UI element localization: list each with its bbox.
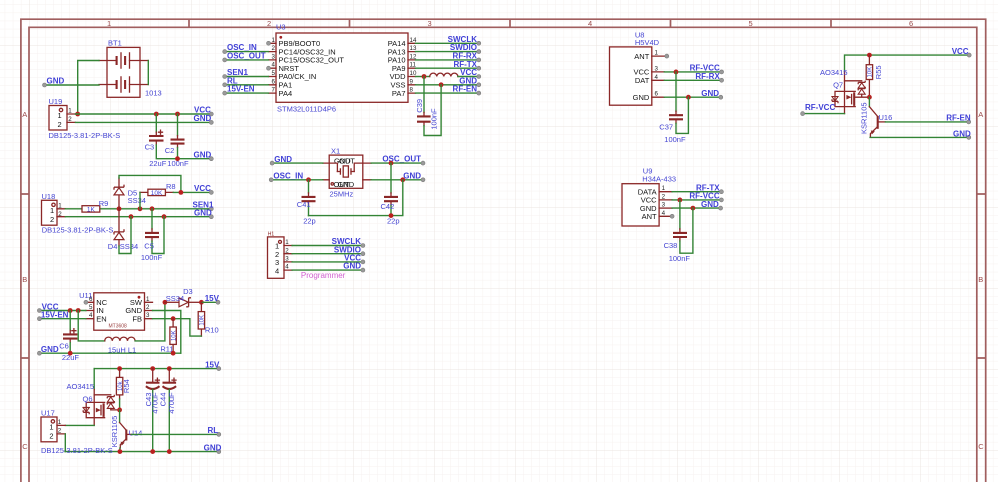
svg-text:GND: GND	[343, 262, 361, 271]
svg-text:GND: GND	[701, 200, 719, 209]
svg-text:C37: C37	[659, 123, 673, 132]
capacitor C44 470uF	[159, 369, 177, 452]
svg-text:RF-EN: RF-EN	[946, 114, 971, 123]
net label GND	[194, 114, 214, 124]
svg-text:100nF: 100nF	[141, 253, 163, 262]
wire RF-VCC from U8.3	[664, 71, 721, 73]
node VSS junction	[439, 82, 444, 87]
capacitor C2 (100nF)	[165, 114, 189, 168]
svg-text:VCC: VCC	[194, 184, 211, 193]
resistor R9 1K	[82, 199, 108, 214]
svg-text:8: 8	[410, 87, 414, 94]
svg-text:22uF: 22uF	[149, 159, 167, 168]
svg-text:B: B	[978, 275, 983, 284]
svg-text:2: 2	[146, 304, 150, 311]
wire RF-VCC (Q7 drain)	[803, 113, 845, 115]
svg-text:OUT: OUT	[339, 157, 355, 166]
wire SEN1 to U3.5	[225, 76, 269, 78]
wire RF-EN from U3.8	[416, 92, 479, 94]
capacitor C41 22p	[297, 180, 316, 226]
transistor U16 KSR1105	[859, 97, 892, 137]
node SEN1/C5 junction	[150, 206, 155, 211]
wire GND row (U16)	[870, 136, 969, 138]
capacitor C5 100nF	[141, 209, 164, 262]
svg-text:3: 3	[146, 312, 150, 319]
wire VCC (Q7 top)	[845, 55, 970, 71]
capacitor C43 470uF	[144, 369, 160, 452]
net label RL	[208, 426, 221, 436]
net label RF-TX	[453, 60, 480, 70]
wire VCC to U11.5	[39, 310, 86, 312]
net label RF-VCC (Q7)	[801, 103, 836, 116]
net label VCC (U11)	[37, 302, 58, 312]
svg-text:Q6: Q6	[83, 395, 93, 404]
resistor R8 10K	[140, 182, 176, 197]
wire C41/C42 bottom rail to GND	[309, 180, 403, 216]
net label SWCLK (H1)	[332, 237, 365, 247]
svg-text:2: 2	[58, 120, 62, 129]
net label SEN1	[223, 68, 249, 78]
wire VCC from inductor	[458, 76, 479, 78]
pin U11.6 open end	[84, 300, 88, 304]
svg-text:OSC_OUT: OSC_OUT	[382, 155, 421, 164]
wire RL to U3.6	[225, 84, 269, 86]
node OSC_IN / C41 junction	[306, 177, 311, 182]
svg-text:B: B	[22, 275, 27, 284]
svg-text:25MHz: 25MHz	[330, 190, 354, 199]
node U8 VCC junction	[674, 70, 679, 75]
wire SWCLK from H1.1	[292, 245, 363, 247]
net label GND (X1 right)	[403, 171, 425, 181]
svg-text:4: 4	[275, 266, 279, 275]
wire OSC_OUT to U3.3	[225, 59, 269, 61]
node U9 GND junction	[691, 206, 696, 211]
inductor L1 15uH	[105, 337, 137, 354]
svg-text:22p: 22p	[303, 217, 316, 226]
diode D4 SS34	[108, 209, 138, 251]
wire SEN1 row	[65, 208, 211, 210]
net label RF-TX	[696, 184, 723, 194]
net label OSC_OUT (X1)	[382, 155, 425, 165]
svg-text:100nF: 100nF	[430, 108, 439, 130]
wire 15V-EN to U11.4	[39, 318, 86, 320]
node SEN1/R8 junction	[138, 206, 143, 211]
svg-text:2: 2	[267, 19, 271, 28]
svg-text:D3: D3	[183, 287, 193, 296]
svg-text:1: 1	[655, 50, 659, 57]
node 15V/R54 junction	[117, 366, 122, 371]
svg-text:6: 6	[909, 19, 913, 28]
wire RF-VCC from U9.2	[672, 199, 721, 201]
svg-text:R10: R10	[205, 326, 219, 335]
svg-text:A: A	[978, 110, 983, 119]
node SEN1/D5 junction	[117, 206, 122, 211]
net label 15V (D3)	[205, 294, 220, 304]
svg-text:GND: GND	[194, 151, 212, 160]
node FB/R11 junction	[171, 316, 176, 321]
transistor U14 KSR1105	[110, 410, 142, 452]
svg-text:A: A	[22, 110, 27, 119]
resistor R11 10K	[160, 319, 177, 354]
net label GND (U9)	[701, 200, 723, 210]
node U9 VCC junction	[678, 198, 683, 203]
capacitor C6 22uF	[59, 311, 79, 363]
svg-text:C6: C6	[59, 341, 69, 350]
svg-text:GND: GND	[701, 89, 719, 98]
node C6 bottom junction	[68, 351, 73, 356]
net label RL	[223, 76, 238, 86]
net label OSC_IN (X1)	[269, 171, 303, 181]
capacitor C37 100nF	[659, 72, 688, 144]
svg-text:100nF: 100nF	[664, 135, 686, 144]
svg-text:R9: R9	[99, 199, 109, 208]
pin U9.4 ANT open end	[670, 214, 674, 218]
svg-text:15V-EN: 15V-EN	[41, 311, 69, 320]
svg-text:C5: C5	[144, 242, 154, 251]
wire 15V flag	[201, 301, 218, 303]
ground flag GND (battery)	[43, 77, 100, 88]
wire GND row (U18)	[65, 216, 211, 218]
net label GND (caps)	[194, 151, 214, 161]
svg-text:R8: R8	[166, 182, 176, 191]
svg-text:KSR1105: KSR1105	[110, 416, 119, 448]
svg-text:C3: C3	[145, 143, 155, 152]
wire L1 to SW node	[135, 302, 165, 341]
svg-text:4: 4	[272, 62, 276, 69]
svg-text:1: 1	[146, 296, 150, 303]
svg-text:GND: GND	[204, 444, 222, 453]
op-amp U3 STM32L011D4P6	[269, 23, 417, 114]
svg-text:10K: 10K	[868, 67, 874, 78]
diode D3 SS34	[165, 287, 202, 307]
svg-text:C: C	[978, 442, 984, 451]
svg-text:R55: R55	[874, 65, 883, 79]
transistor Q6 AO3415	[67, 382, 120, 425]
wire SWDIO from H1.2	[292, 253, 363, 255]
svg-text:C2: C2	[165, 146, 175, 155]
svg-text:ANT: ANT	[642, 212, 657, 221]
frame column ticks	[189, 19, 831, 27]
svg-text:5: 5	[89, 304, 93, 311]
svg-text:H34A-433: H34A-433	[642, 174, 676, 183]
node VDD junction	[422, 74, 427, 79]
diode D5 SS34	[114, 178, 146, 209]
svg-text:10K: 10K	[171, 330, 177, 341]
svg-text:VCC: VCC	[952, 47, 969, 56]
svg-text:C: C	[22, 442, 28, 451]
svg-text:GND: GND	[403, 171, 421, 180]
node L1 branch junction	[76, 308, 81, 313]
net label RF-EN	[946, 114, 971, 124]
svg-text:2: 2	[49, 431, 53, 440]
svg-text:3: 3	[662, 202, 666, 209]
svg-text:15V: 15V	[205, 360, 220, 369]
capacitor C38 100nF	[664, 200, 693, 263]
svg-text:GND: GND	[953, 129, 971, 138]
svg-text:6: 6	[89, 296, 93, 303]
node GND/C5 junction	[162, 214, 167, 219]
svg-text:GND: GND	[194, 209, 212, 218]
net label VCC	[460, 68, 481, 78]
wire BT1 plus to VCC rail	[78, 61, 99, 115]
svg-text:5: 5	[749, 19, 753, 28]
svg-text:6: 6	[272, 78, 276, 85]
wire SWCLK from U3.14	[416, 42, 479, 44]
wire GND line (bottom)	[65, 451, 219, 453]
connector H1 (programmer header)	[268, 231, 293, 278]
svg-text:C39: C39	[415, 99, 424, 113]
svg-text:SS34: SS34	[166, 294, 184, 303]
svg-text:4: 4	[655, 74, 659, 81]
node 15V junction	[199, 300, 204, 305]
svg-text:1K: 1K	[87, 206, 96, 213]
connector U17	[41, 409, 113, 455]
svg-text:R54: R54	[122, 379, 131, 393]
node SW junction	[163, 300, 168, 305]
svg-text:22p: 22p	[387, 217, 400, 226]
node 15V/C43 junction	[150, 366, 155, 371]
node Q7 gate junction	[867, 95, 872, 100]
wire RF-RX from U8.4	[664, 79, 721, 81]
svg-text:OSC_IN: OSC_IN	[273, 171, 303, 180]
resistor R54 10k	[116, 369, 130, 410]
net label GND (U3)	[459, 76, 481, 86]
svg-text:4: 4	[662, 210, 666, 217]
resistor R55 10K	[866, 55, 883, 97]
svg-text:GND: GND	[338, 180, 355, 189]
svg-text:3: 3	[272, 53, 276, 60]
svg-text:1: 1	[272, 37, 276, 44]
svg-text:RF-RX: RF-RX	[695, 72, 720, 81]
svg-text:PA7: PA7	[392, 89, 406, 98]
net label OSC_OUT	[223, 52, 266, 62]
wire GND rail (U19)	[76, 121, 212, 123]
svg-text:15V: 15V	[205, 294, 220, 303]
node U19 pin1 junction	[75, 112, 80, 117]
svg-text:GND: GND	[47, 77, 65, 86]
wire D4 anode to GND row	[119, 217, 131, 254]
svg-text:GND: GND	[633, 93, 650, 102]
op-amp U8 H5V4D	[610, 31, 665, 106]
wire GND from U8.6	[664, 96, 721, 98]
net label 15V-EN (U11)	[37, 311, 68, 321]
wire RL row	[132, 433, 219, 435]
svg-text:2: 2	[50, 215, 54, 224]
svg-text:1: 1	[107, 19, 111, 28]
svg-text:U19: U19	[49, 97, 63, 106]
wire 15V rail to Q6 source	[93, 369, 95, 390]
svg-text:OSC_OUT: OSC_OUT	[227, 52, 266, 61]
battery BT1	[99, 39, 162, 98]
svg-text:Programmer: Programmer	[301, 271, 346, 280]
resistor R10 10K	[198, 302, 218, 336]
svg-text:AO3415: AO3415	[820, 68, 848, 77]
wire RF-TX from U9.1	[672, 191, 721, 193]
svg-text:GND: GND	[274, 155, 292, 164]
wire BT1 right series link	[147, 61, 149, 85]
svg-text:RL: RL	[208, 426, 219, 435]
wire GND from X1 right	[371, 179, 423, 181]
svg-text:C38: C38	[664, 241, 678, 250]
transistor Q7 AO3415	[820, 68, 869, 113]
pin U3.4 open end	[267, 66, 271, 70]
svg-text:SS34: SS34	[120, 242, 138, 251]
svg-text:RF-VCC: RF-VCC	[805, 103, 835, 112]
wire L1 branch	[78, 311, 105, 341]
wire GND line (U11)	[39, 352, 180, 354]
svg-text:ANT: ANT	[634, 52, 649, 61]
pin U8.1 ANT open end	[665, 54, 669, 58]
wire Q6 drain to U17.1	[65, 424, 94, 426]
wire VSS from U3.9	[416, 84, 479, 86]
node C6 top junction	[68, 308, 73, 313]
svg-text:3: 3	[655, 65, 659, 72]
net label 15V-EN	[223, 85, 255, 95]
svg-text:DB125-3.81-2P-BK-S: DB125-3.81-2P-BK-S	[42, 226, 114, 235]
net label VCC (H1)	[344, 254, 365, 264]
svg-text:1013: 1013	[145, 89, 162, 98]
wire R8 left leg down to SEN1	[139, 192, 141, 208]
capacitor C39 100nF	[415, 77, 441, 136]
svg-text:GND: GND	[41, 345, 59, 354]
svg-text:1: 1	[58, 111, 62, 120]
svg-text:4: 4	[588, 19, 592, 28]
svg-text:C41: C41	[297, 200, 311, 209]
svg-text:470uF: 470uF	[167, 392, 176, 414]
node U14 emitter/GND junction	[118, 449, 123, 454]
svg-text:H5V4D: H5V4D	[635, 38, 660, 47]
wire GND from H1.4	[292, 269, 363, 271]
node C43/GND junction	[150, 449, 155, 454]
frame row ticks	[21, 194, 986, 358]
svg-text:10K: 10K	[151, 190, 163, 197]
wire RF-RX from U3.12	[416, 59, 479, 61]
capacitor C3 (polarized 22uF)	[145, 114, 212, 168]
net label GND (U16)	[953, 129, 971, 139]
svg-text:KSR1105: KSR1105	[859, 102, 868, 134]
net label GND (bottom)	[204, 444, 222, 454]
wire VCC rail (U19)	[76, 113, 212, 115]
svg-text:RF-EN: RF-EN	[453, 85, 478, 94]
connector U18	[42, 192, 114, 235]
node R11 bottom junction	[171, 351, 176, 356]
wire GND from U9.3	[672, 207, 721, 209]
net label SWCLK	[448, 35, 481, 45]
net label GND (U11)	[37, 345, 59, 355]
net label 15V (rail)	[205, 360, 221, 370]
svg-text:Q7: Q7	[833, 81, 843, 90]
node R55 top junction	[867, 53, 872, 58]
net label RF-VCC (U8)	[690, 64, 724, 74]
svg-text:1: 1	[49, 423, 53, 432]
svg-text:2: 2	[662, 193, 666, 200]
wire RF-TX from U3.11	[416, 67, 479, 69]
net label GND (H1)	[343, 262, 365, 272]
wire OSC_IN to X1	[271, 179, 323, 181]
node C2 top junction	[175, 112, 180, 117]
net label SWDIO (H1)	[334, 245, 365, 255]
op-amp U9 H34A-433	[622, 167, 676, 227]
node OSC_OUT / C42 junction	[389, 161, 394, 166]
svg-text:X1: X1	[331, 146, 340, 155]
net label GND (X1 left)	[270, 155, 292, 165]
svg-text:4: 4	[89, 312, 93, 319]
wire 15V-EN to U3.7	[225, 92, 269, 94]
net label RF-RX	[453, 52, 481, 62]
svg-text:GND: GND	[194, 114, 212, 123]
svg-text:9: 9	[410, 78, 414, 85]
svg-text:2: 2	[272, 45, 276, 52]
svg-text:C42: C42	[381, 202, 395, 211]
node C3 top junction	[154, 112, 159, 117]
net label GND (U18)	[194, 209, 213, 219]
svg-text:DB125-3.81-2P-BK-S: DB125-3.81-2P-BK-S	[41, 446, 113, 455]
crystal X1 25MHz	[323, 146, 371, 198]
svg-text:U14: U14	[129, 428, 143, 437]
svg-text:U18: U18	[42, 192, 56, 201]
net label OSC_IN	[223, 43, 257, 53]
svg-text:H1: H1	[268, 231, 275, 237]
svg-text:3: 3	[428, 19, 432, 28]
node 15V/C44 junction	[167, 366, 172, 371]
connector U19	[49, 97, 121, 140]
svg-text:1: 1	[662, 185, 666, 192]
net label SWDIO	[450, 43, 481, 53]
svg-text:SS34: SS34	[128, 196, 146, 205]
net label VCC	[194, 106, 213, 116]
wire FB row	[153, 319, 202, 336]
wire SWDIO from U3.13	[416, 51, 479, 53]
svg-text:DB125-3.81-2P-BK-S: DB125-3.81-2P-BK-S	[49, 131, 121, 140]
svg-text:U17: U17	[41, 409, 55, 418]
svg-text:EN: EN	[96, 314, 106, 323]
net label GND (U8)	[701, 89, 723, 99]
net label RF-EN	[453, 85, 481, 95]
svg-text:100nF: 100nF	[669, 254, 691, 263]
net label SEN1 (U18)	[193, 201, 214, 211]
net label RF-RX	[695, 72, 723, 82]
net label VCC (R8)	[194, 184, 213, 194]
wire D5 top rail to VCC node	[119, 175, 181, 192]
svg-text:7: 7	[272, 87, 276, 94]
svg-text:15V-EN: 15V-EN	[227, 85, 255, 94]
wire U11.2 GND down	[153, 311, 181, 354]
node C44/GND junction	[167, 449, 172, 454]
svg-text:6: 6	[655, 91, 659, 98]
op-amp U11 MT3608	[79, 291, 152, 330]
svg-text:5: 5	[272, 70, 276, 77]
node U8 GND junction	[686, 95, 691, 100]
svg-text:DAT: DAT	[635, 76, 650, 85]
svg-text:STM32L011D4P6: STM32L011D4P6	[277, 105, 336, 114]
svg-text:U3: U3	[276, 23, 286, 32]
node GND right junction	[400, 177, 405, 182]
capacitor C42 22p	[381, 163, 400, 225]
svg-text:BT1: BT1	[108, 39, 122, 48]
svg-text:10K: 10K	[200, 315, 206, 326]
wire RF-EN row	[885, 121, 968, 123]
svg-text:PA4: PA4	[279, 89, 293, 98]
node C42 bottom junction	[389, 213, 394, 218]
node R8/VCC junction	[179, 190, 184, 195]
pin U3.1 open end	[267, 41, 271, 45]
wire OSC_IN to U3.2	[225, 51, 269, 53]
node Q6 gate junction	[117, 408, 122, 413]
wire VDD from U3.10	[416, 76, 430, 78]
wire OSC_OUT from X1	[371, 162, 423, 164]
wire R8 right to VCC label	[173, 191, 211, 193]
wire U17.2 to GND line	[64, 434, 66, 452]
